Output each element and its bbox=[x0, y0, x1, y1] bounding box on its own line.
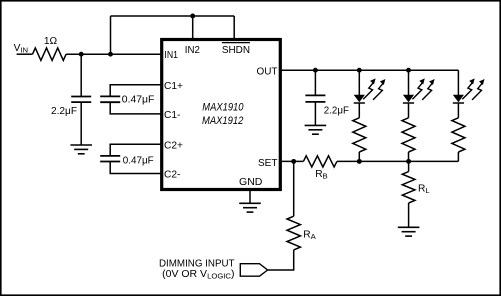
wire resistor to IC IN1 bbox=[66, 53, 162, 55]
svg-text:RL: RL bbox=[418, 183, 430, 195]
wire top rail bbox=[111, 15, 235, 17]
svg-text:IN1: IN1 bbox=[164, 50, 178, 61]
wire RL bottom lead bbox=[408, 203, 410, 227]
ground below output cap bbox=[305, 125, 327, 134]
resistor RB zigzag bbox=[303, 156, 337, 167]
svg-text:C1-: C1- bbox=[164, 110, 180, 121]
node dot bottom rail RL bbox=[406, 159, 411, 164]
resistor R1 1ohm zigzag bbox=[33, 48, 67, 60]
resistor ballast 2 zigzag bbox=[402, 118, 415, 152]
ground below input cap bbox=[70, 145, 92, 154]
LED D1 bbox=[354, 78, 386, 103]
svg-text:C2+: C2+ bbox=[164, 140, 183, 151]
ground below IC GND pin bbox=[239, 203, 261, 212]
node dot bottom rail LED1 bbox=[357, 159, 362, 164]
wire LED2 anode bbox=[408, 70, 410, 95]
wire SET pin to node bbox=[280, 160, 303, 162]
wire GND pin drop bbox=[249, 190, 251, 203]
resistor ballast 1 zigzag bbox=[353, 118, 366, 152]
node dot input after R1 bbox=[79, 52, 84, 57]
wire RL top lead bbox=[408, 161, 410, 171]
svg-text:SET: SET bbox=[258, 158, 278, 169]
resistor RA zigzag bbox=[287, 216, 300, 250]
wire RA bottom to connector bbox=[268, 250, 294, 270]
capacitor C1 0.47uF plates bbox=[100, 96, 120, 102]
svg-text:0.47μF: 0.47μF bbox=[123, 155, 154, 166]
wire VIN to resistor bbox=[17, 53, 33, 55]
svg-text:OUT: OUT bbox=[257, 67, 278, 78]
svg-text:RB: RB bbox=[315, 169, 328, 181]
wire 2.2uF output cap top lead bbox=[314, 70, 316, 95]
svg-text:2.2μF: 2.2μF bbox=[51, 106, 77, 117]
LED D3 bbox=[453, 78, 485, 103]
wire OUT rail bbox=[280, 69, 458, 71]
wire LED1 cathode to resistor bbox=[358, 103, 360, 117]
resistor RL zigzag bbox=[402, 172, 415, 203]
connector dimming input flag bbox=[240, 264, 267, 277]
capacitor 2.2uF output plates bbox=[305, 95, 325, 102]
wire 2.2uF input cap bottom lead bbox=[80, 102, 82, 145]
node dot top rail IN2 bbox=[190, 14, 195, 19]
wire C1- pin bbox=[110, 102, 162, 114]
svg-text:2.2μF: 2.2μF bbox=[324, 106, 349, 117]
node dot OUT rail cap bbox=[313, 68, 318, 73]
wire vertical to top rail bbox=[110, 16, 112, 54]
wire IN2 drop bbox=[192, 16, 194, 40]
svg-text:0.47μF: 0.47μF bbox=[122, 94, 155, 105]
wire C2- pin bbox=[110, 162, 162, 174]
svg-text:C1+: C1+ bbox=[164, 81, 183, 92]
resistor ballast 3 zigzag bbox=[452, 118, 465, 152]
capacitor 2.2uF input plates bbox=[71, 97, 91, 103]
svg-text:MAX1912: MAX1912 bbox=[202, 115, 243, 127]
node dot OUT rail LED1 bbox=[357, 68, 362, 73]
svg-text:MAX1910: MAX1910 bbox=[202, 102, 244, 114]
wire SHDN drop bbox=[233, 16, 235, 40]
svg-text:VIN: VIN bbox=[14, 43, 28, 54]
node dot input at vertical bbox=[108, 52, 113, 57]
wire resistor3 to bottom rail bbox=[457, 152, 459, 161]
wire LED3 anode bbox=[457, 70, 459, 95]
wire LED1 anode bbox=[358, 70, 360, 95]
capacitor C2 0.47uF plates bbox=[100, 156, 120, 162]
svg-text:C2-: C2- bbox=[164, 170, 180, 181]
IC U1 MAX1910/MAX1912 box bbox=[162, 40, 281, 190]
wire bottom rail bbox=[337, 160, 459, 162]
svg-text:GND: GND bbox=[239, 177, 262, 188]
wire 2.2uF input cap top lead bbox=[80, 54, 82, 96]
wire LED3 cathode to resistor bbox=[457, 103, 459, 117]
node dot SET bbox=[291, 159, 296, 164]
wire resistor1 to bottom rail bbox=[358, 152, 360, 161]
wire LED2 cathode to resistor bbox=[408, 103, 410, 117]
wire resistor2 to bottom rail bbox=[408, 152, 410, 161]
wire RA top lead bbox=[293, 161, 295, 216]
svg-text:IN2: IN2 bbox=[185, 45, 200, 56]
wire 2.2uF output cap bottom lead bbox=[314, 102, 316, 126]
wire C1+ pin bbox=[110, 85, 162, 97]
ground below RL bbox=[398, 227, 420, 236]
svg-text:SHDN: SHDN bbox=[222, 45, 250, 56]
LED D2 bbox=[403, 78, 435, 103]
node dot OUT rail LED2 bbox=[406, 68, 411, 73]
svg-text:1Ω: 1Ω bbox=[44, 36, 58, 47]
svg-text:RA: RA bbox=[303, 229, 316, 241]
SHDN overline bbox=[222, 42, 250, 44]
wire C2+ pin bbox=[110, 144, 162, 156]
